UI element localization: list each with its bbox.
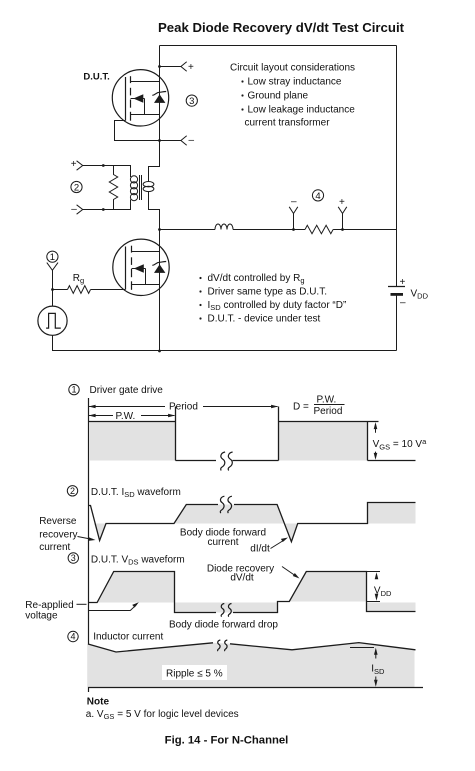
svg-text:D.U.T. - device under test: D.U.T. - device under test [208, 314, 321, 325]
label body diode forward current [180, 527, 266, 548]
label D = P.W./Period fraction [293, 395, 345, 417]
svg-text:Note: Note [87, 697, 110, 708]
wire pulse gen to bottom [52, 335, 54, 351]
resistor Rg [68, 286, 91, 294]
node dot rail at bottom wire [158, 350, 161, 353]
terminal arrow - (transformer) [77, 205, 83, 214]
break symbol wave1 [221, 452, 233, 470]
svg-text:–: – [400, 298, 406, 309]
node dot Rg branch [51, 288, 54, 291]
wave3 gray fill band2 [367, 603, 416, 612]
svg-text:–: – [291, 197, 297, 208]
svg-text:Driver same type as D.U.T.: Driver same type as D.U.T. [208, 287, 327, 298]
break symbol wave4 [218, 640, 228, 651]
svg-text:dI/dt: dI/dt [250, 544, 270, 555]
wire bottom [52, 350, 397, 352]
wave4 bottom line [88, 687, 423, 689]
wave3 gray fill band1 [175, 603, 279, 613]
wave2 gray fill main block [174, 505, 298, 542]
transformer input + wire [83, 165, 131, 167]
wire to Rg [53, 289, 68, 291]
svg-text:–: – [189, 135, 195, 146]
node circled 4 label [68, 631, 78, 641]
svg-text:4: 4 [315, 191, 320, 202]
svg-text:3: 3 [189, 96, 194, 107]
wire top [160, 45, 397, 47]
svg-text:4: 4 [70, 632, 75, 642]
break symbol wave3 [221, 604, 231, 617]
svg-text:current: current [207, 537, 238, 548]
svg-text:3: 3 [71, 553, 76, 563]
svg-text:Period: Period [314, 406, 343, 417]
svg-text:dV/dt controlled by Rg: dV/dt controlled by Rg [208, 273, 305, 285]
svg-text:2: 2 [74, 182, 79, 193]
svg-text:Low leakage inductance: Low leakage inductance [248, 105, 356, 116]
wave2 trace [88, 505, 218, 541]
label reverse recovery current [39, 516, 77, 553]
terminal arrow + (transformer) [77, 161, 83, 170]
svg-text:D.U.T. ISD waveform: D.U.T. ISD waveform [91, 487, 181, 499]
node junction dot source return [158, 139, 161, 142]
node circled 1 [47, 251, 58, 262]
terminal arrow input 1 [47, 263, 58, 271]
svg-text:P.W.: P.W. [317, 395, 337, 406]
svg-text:D.U.T.: D.U.T. [83, 72, 109, 83]
pointer arrow diode recovery [282, 567, 297, 577]
wave1 trace fall edge2 [367, 422, 369, 461]
wire right lower [396, 295, 398, 351]
wire Rg to gate [91, 289, 126, 291]
svg-text:Circuit layout considerations: Circuit layout considerations [230, 63, 355, 74]
svg-text:voltage: voltage [25, 610, 58, 621]
pointer line re-applied [77, 603, 87, 605]
node circled 2 [71, 181, 82, 192]
wave1 gray pulse 1 [89, 422, 176, 461]
wire DUT gate/source return [115, 121, 182, 141]
text circuit layout considerations [230, 63, 355, 129]
svg-text:–: – [71, 204, 77, 215]
svg-text:2: 2 [70, 486, 75, 496]
svg-text:D.U.T. VDS waveform: D.U.T. VDS waveform [91, 554, 185, 566]
node junction dot drain sense [158, 65, 161, 68]
transistor D.U.T. MOSFET (top) [112, 70, 168, 126]
wire rail jog to secondary [149, 141, 160, 182]
svg-text:Peak Diode Recovery dV/dt Test: Peak Diode Recovery dV/dt Test Circuit [158, 20, 405, 35]
pointer arrow dI/dt [271, 540, 286, 549]
transistor Q1 driver MOSFET (bottom) [113, 239, 169, 295]
svg-text:Low stray inductance: Low stray inductance [248, 77, 342, 88]
wave4 trace [88, 643, 213, 652]
wave1 VGS arrow (split) [375, 425, 377, 433]
wire rail lower through driver [159, 230, 161, 351]
node circled 1 label [69, 384, 79, 394]
svg-text:+: + [188, 62, 194, 73]
pointer arrow reverse recovery [78, 537, 94, 540]
break symbol wave2 [220, 496, 232, 513]
label ripple [162, 665, 227, 680]
wave1 trace tail [368, 460, 416, 462]
wave1 trace fall edge1 [175, 407, 177, 461]
wave3 VDD top tick [367, 571, 381, 573]
CIRCUIT-SECTION [25, 46, 428, 747]
wave3 gray fill trap1 [97, 572, 174, 603]
svg-text:current: current [39, 542, 70, 553]
svg-text:Driver gate drive: Driver gate drive [90, 385, 164, 396]
svg-text:recovery: recovery [39, 529, 77, 540]
node circled 3 label [68, 553, 78, 563]
wave3 gray fill trap2 [289, 572, 366, 602]
node junction dot rail/inductor row [158, 228, 161, 231]
node circled 4 [312, 190, 323, 201]
wave1 P.W. arrow [89, 411, 176, 422]
svg-text:Body diode forward drop: Body diode forward drop [169, 620, 278, 631]
wave1 trace pulse1 top [88, 421, 176, 423]
wave1 period arrow [89, 401, 279, 412]
terminal arrow + (top) [181, 62, 187, 72]
svg-text:1: 1 [50, 252, 55, 263]
svg-text:ISD controlled by duty factor: ISD controlled by duty factor “D” [208, 300, 347, 312]
svg-text:+: + [339, 197, 345, 208]
transformer T1 core [139, 175, 141, 200]
svg-text:1: 1 [71, 385, 76, 395]
wave3 trace [88, 572, 216, 613]
wave3 VDD bottom tick [367, 601, 381, 603]
svg-text:Period: Period [169, 401, 198, 412]
transformer T1 secondary winding [143, 182, 154, 187]
transformer input - wire [83, 209, 131, 211]
pulse generator source [38, 306, 67, 335]
wire main rail upper [159, 46, 161, 141]
node circled 2 label [67, 486, 77, 496]
resistor R (transformer damping) [109, 166, 117, 210]
wave1 trace rise edge2 [278, 407, 280, 461]
wave1 trace low segment [176, 460, 217, 462]
wave3 re-applied ramp arrow [88, 604, 137, 610]
wave2 gray fill right block [368, 503, 416, 524]
WAVEFORM-SECTION [25, 384, 427, 746]
transformer T1 primary winding [130, 166, 137, 210]
svg-text:Reverse: Reverse [39, 516, 77, 527]
node dot on - wire [102, 208, 105, 211]
wave4 ISD arrow (split) [375, 650, 377, 659]
svg-text:Fig. 14 - For N-Channel: Fig. 14 - For N-Channel [165, 735, 289, 747]
svg-text:Ripple ≤ 5 %: Ripple ≤ 5 % [166, 669, 223, 680]
inductor L [215, 224, 233, 229]
svg-text:Re-applied: Re-applied [25, 600, 73, 611]
svg-text:Ground plane: Ground plane [248, 91, 309, 102]
wave4 ISD tick [350, 647, 374, 649]
terminal stub + (row) [342, 214, 344, 230]
wave1 gray pulse 2 [279, 422, 368, 461]
battery VDD plates [388, 286, 405, 288]
svg-text:current transformer: current transformer [245, 118, 331, 129]
wire secondary bottom lead [149, 191, 160, 230]
text bullet notes list [199, 273, 346, 325]
svg-text:Inductor current: Inductor current [93, 631, 163, 642]
wire right upper [396, 46, 398, 287]
node circled 3 [186, 95, 197, 106]
terminal stub - (row) [293, 214, 295, 230]
label re-applied voltage [25, 600, 73, 622]
svg-text:+: + [400, 277, 406, 288]
wave3 VDD arrow (split) [376, 575, 378, 579]
wave1 trace pulse2 top (extends past fall as tick) [279, 421, 379, 423]
svg-text:dV/dt: dV/dt [230, 572, 254, 583]
wave2 gray fill V1 [94, 524, 106, 541]
resistor (current sense row) [305, 225, 333, 233]
terminal arrow - (upper) [181, 136, 187, 146]
wire input 1 down [52, 270, 54, 306]
svg-text:+: + [71, 159, 77, 170]
node dot on + wire [102, 164, 105, 167]
wave4 gray fill [88, 643, 415, 687]
svg-text:P.W.: P.W. [116, 411, 136, 422]
waveform axis line [88, 398, 90, 692]
label diode recovery dV/dt [207, 564, 274, 584]
wire to + terminal (DUT drain sense) [160, 66, 182, 68]
wire inductor row [160, 229, 216, 231]
svg-text:D =: D = [293, 401, 309, 412]
